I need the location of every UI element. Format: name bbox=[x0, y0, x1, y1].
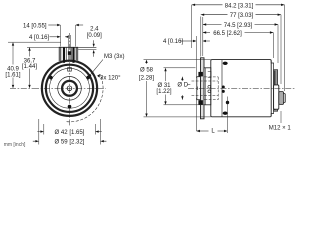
hidden cavity end bbox=[217, 77, 219, 100]
M3 hole bottom bbox=[68, 105, 72, 109]
clamp dark bar left bbox=[63, 47, 65, 63]
dim 14 [0.55] bbox=[48, 24, 83, 47]
center ring bbox=[67, 86, 72, 91]
svg-text:[1.61]: [1.61] bbox=[5, 72, 20, 78]
svg-text:4 [0.16]: 4 [0.16] bbox=[29, 35, 49, 41]
flange notch bbox=[208, 72, 211, 78]
svg-text:14 [0.55]: 14 [0.55] bbox=[23, 23, 47, 29]
dim Ø58 bbox=[144, 60, 211, 117]
centerline vertical bbox=[69, 33, 71, 127]
body joint line bbox=[221, 60, 223, 117]
svg-text:74.5 [2.93]: 74.5 [2.93] bbox=[224, 23, 253, 29]
svg-text:[1.44]: [1.44] bbox=[22, 64, 37, 70]
svg-text:77 [3.03]: 77 [3.03] bbox=[230, 13, 254, 19]
dim 4 [0.16] side bbox=[180, 36, 210, 131]
dim Ø31 bbox=[164, 68, 205, 105]
ring screw square bbox=[198, 72, 203, 77]
centerline tick bbox=[197, 87, 199, 91]
rear plate slab bbox=[274, 70, 278, 112]
dim ØD bbox=[181, 77, 190, 100]
clamp top edge bbox=[59, 46, 78, 48]
M12 barrel bbox=[279, 92, 284, 105]
clamp ring top (protrusion) bbox=[59, 35, 78, 71]
dim L bbox=[197, 97, 228, 134]
centerline horizontal bbox=[33, 87, 106, 89]
rear plate shading bbox=[274, 71, 276, 111]
svg-text:Ø 42 [1.65]: Ø 42 [1.65] bbox=[55, 130, 85, 136]
M3 hole upper-left bbox=[49, 76, 53, 80]
clamp dark bar right bbox=[72, 47, 74, 63]
flange inner line bbox=[205, 68, 207, 105]
hub circle thin bbox=[58, 77, 82, 101]
svg-text:66.5 [2.62]: 66.5 [2.62] bbox=[213, 31, 242, 37]
M12 leader bbox=[280, 111, 282, 123]
main body bbox=[211, 60, 271, 117]
svg-text:M12 × 1: M12 × 1 bbox=[269, 126, 292, 132]
screw on L line bbox=[226, 101, 229, 104]
M3 hole upper-right bbox=[86, 76, 90, 80]
arrowhead arc end bbox=[97, 74, 100, 78]
M12 tip bbox=[283, 94, 285, 103]
svg-text:[0.09]: [0.09] bbox=[87, 33, 102, 39]
svg-text:[1.22]: [1.22] bbox=[156, 89, 171, 95]
connector block bbox=[274, 85, 279, 109]
svg-text:3x 120°: 3x 120° bbox=[100, 76, 121, 82]
svg-text:2.4: 2.4 bbox=[90, 27, 99, 33]
120 degree dashed arc bbox=[67, 74, 103, 122]
clamp inner lines bbox=[66, 47, 71, 62]
rear cap bbox=[271, 61, 273, 117]
svg-text:4 [0.16]: 4 [0.16] bbox=[163, 39, 183, 45]
flange screws bbox=[208, 85, 211, 88]
hub circle thick bbox=[62, 81, 77, 96]
svg-text:Ø 59 [2.32]: Ø 59 [2.32] bbox=[55, 140, 85, 146]
ring screw square lower bbox=[198, 100, 203, 105]
flange outer circle Ø59 bbox=[42, 61, 97, 116]
flange step circle Ø42 bbox=[46, 65, 93, 112]
shaft stub bbox=[197, 77, 201, 100]
dim 36.7 vertical bbox=[27, 47, 59, 88]
set screw square bbox=[68, 51, 71, 55]
flange section bbox=[204, 68, 211, 105]
joint screw oval top bbox=[223, 62, 228, 65]
lower square detail bbox=[68, 68, 72, 72]
dim 4 [0.16] left view bbox=[50, 36, 70, 38]
joint screw oval bottom bbox=[223, 112, 228, 115]
dim 84.2 bbox=[192, 4, 285, 91]
dim 40.9 vertical bbox=[8, 42, 61, 88]
dim Ø59 bbox=[33, 119, 107, 145]
svg-text:M3 (3x): M3 (3x) bbox=[104, 54, 125, 60]
hidden cavity rect bbox=[205, 77, 219, 100]
M3 leader bbox=[89, 60, 103, 77]
clamp ring side (dark band) bbox=[201, 58, 205, 119]
clamp outer left bar bbox=[59, 47, 62, 61]
dim 66.5 bbox=[203, 17, 273, 58]
svg-text:[2.28]: [2.28] bbox=[139, 76, 154, 82]
dim 2.4 [0.09] bbox=[78, 40, 96, 56]
dim Ø42 bbox=[37, 124, 102, 135]
clamp outer right bar bbox=[76, 47, 79, 61]
svg-text:Ø 58: Ø 58 bbox=[140, 68, 154, 74]
svg-text:mm [inch]: mm [inch] bbox=[4, 142, 26, 148]
side centerline bbox=[188, 87, 296, 89]
svg-text:84.2 [3.31]: 84.2 [3.31] bbox=[225, 3, 254, 9]
dim 74.5 bbox=[203, 23, 278, 63]
dim 77 bbox=[201, 14, 281, 85]
bolt circle (thin) bbox=[50, 68, 90, 108]
joint screws mid bbox=[222, 86, 225, 89]
hidden bore lines bbox=[192, 81, 219, 96]
svg-text:Ø D: Ø D bbox=[177, 82, 188, 88]
